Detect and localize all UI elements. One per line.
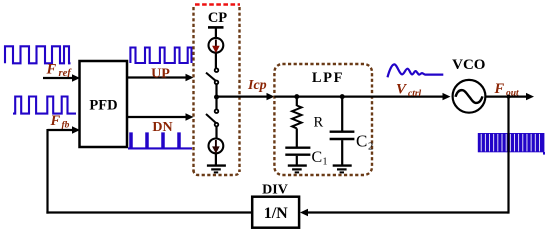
- ground CP: [207, 166, 226, 173]
- wire feedback riser up: [46, 129, 48, 214]
- wire Icp to LPF: [217, 95, 269, 97]
- wire feedback bottom to divider: [307, 211, 509, 213]
- label Fout: [494, 81, 520, 98]
- wire S2 to current source I2: [215, 127, 217, 139]
- svg-text:fb: fb: [62, 120, 70, 130]
- svg-text:F: F: [50, 113, 61, 129]
- node Icp junction: [214, 95, 219, 100]
- waveform Fout high frequency: [478, 133, 545, 155]
- svg-text:Icp: Icp: [247, 78, 267, 93]
- supply rail bar: [208, 26, 224, 29]
- label Ffb: [50, 113, 70, 131]
- waveform DN pulses: [128, 133, 192, 148]
- block DIV 1/N: [252, 197, 299, 228]
- wire I1 to switch S1: [215, 53, 217, 69]
- capacitor C2: [330, 130, 355, 132]
- svg-text:ctrl: ctrl: [408, 89, 422, 99]
- svg-text:2: 2: [368, 142, 373, 153]
- svg-text:F: F: [46, 62, 57, 78]
- waveform Vctrl transient: [388, 64, 444, 77]
- node LPF C2 branch: [340, 94, 345, 99]
- wire Ffb into PFD: [48, 129, 75, 131]
- dashed box CP charge pump: [194, 5, 241, 176]
- wire R to C1: [296, 128, 298, 146]
- wire I2 to ground: [215, 153, 217, 165]
- switch S2 (DN): [215, 109, 219, 113]
- wire UP output: [127, 76, 187, 78]
- label Vctrl: [396, 82, 422, 99]
- dashed box LPF low pass filter: [274, 64, 372, 175]
- wire LPF through line to VCO: [274, 95, 444, 97]
- wire node to resistor R: [296, 97, 298, 106]
- waveform Fref input square wave: [5, 46, 71, 63]
- current source I1 (UP): [209, 38, 224, 53]
- svg-text:LPF: LPF: [312, 70, 344, 86]
- svg-text:F: F: [494, 81, 505, 97]
- node Fout feedback junction: [507, 95, 511, 99]
- node LPF R branch: [294, 94, 299, 99]
- svg-text:DIV: DIV: [262, 182, 288, 197]
- ground C2: [333, 166, 352, 173]
- wire node to C2: [341, 97, 343, 131]
- switch S1 (UP): [215, 68, 219, 72]
- wire C1 to ground: [296, 156, 298, 166]
- svg-text:VCO: VCO: [452, 57, 485, 73]
- ground C1: [288, 166, 307, 173]
- svg-text:1/N: 1/N: [264, 205, 288, 222]
- block PFD: [80, 61, 128, 147]
- svg-text:C: C: [312, 149, 323, 166]
- svg-text:UP: UP: [151, 66, 170, 81]
- wire C2 to ground: [341, 140, 343, 165]
- wire node to switch S2: [215, 97, 217, 109]
- svg-text:R: R: [314, 115, 324, 131]
- svg-text:C: C: [356, 132, 367, 151]
- svg-text:CP: CP: [208, 10, 227, 26]
- waveform Ffb input square wave: [13, 97, 76, 114]
- current source I2 (DN): [209, 139, 224, 154]
- svg-text:1: 1: [323, 157, 328, 168]
- wire feedback down: [507, 97, 509, 214]
- label Icp: [247, 78, 267, 93]
- capacitor C1: [285, 147, 310, 149]
- wire Fref into PFD: [43, 77, 74, 79]
- wire VCO output Fout: [485, 95, 527, 97]
- waveform UP pulses: [130, 48, 191, 64]
- oscillator VCO U1: [453, 80, 486, 113]
- label Fref: [46, 62, 73, 80]
- wire supply to current source I1: [215, 27, 217, 38]
- resistor R: [292, 106, 301, 129]
- wire divider output to feedback riser: [46, 211, 252, 213]
- svg-text:PFD: PFD: [89, 98, 117, 114]
- wire DN output: [127, 116, 187, 118]
- wire S1 to node Icp: [215, 84, 217, 97]
